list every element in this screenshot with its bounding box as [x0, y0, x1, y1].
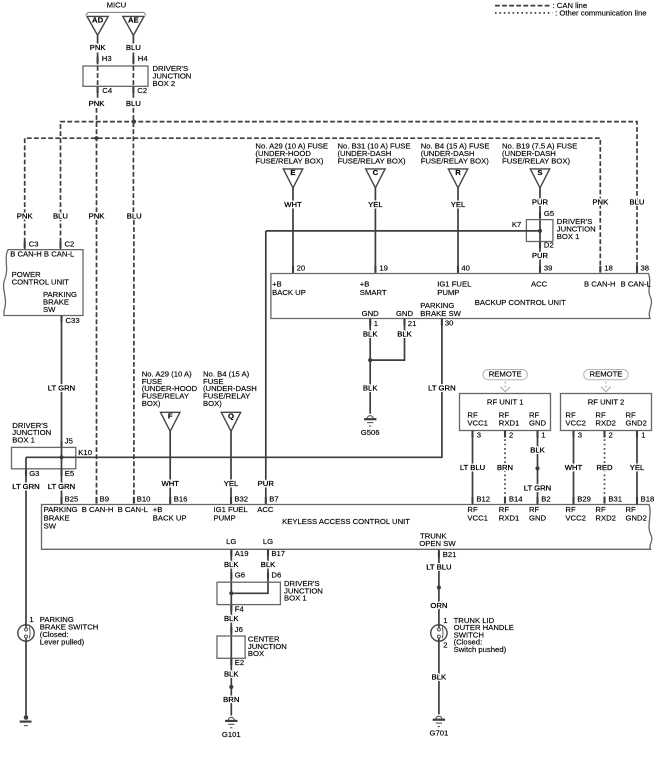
svg-text:30: 30 — [445, 319, 454, 328]
svg-text:REMOTE: REMOTE — [590, 369, 623, 378]
svg-text:B14: B14 — [509, 495, 523, 504]
svg-text:SW: SW — [44, 522, 57, 531]
svg-text:LT GRN: LT GRN — [48, 383, 75, 392]
svg-text:F: F — [168, 412, 173, 421]
svg-text:BLK: BLK — [224, 560, 239, 569]
svg-text:1: 1 — [374, 319, 378, 328]
svg-text:MICU: MICU — [107, 0, 127, 9]
svg-text:B7: B7 — [269, 495, 278, 504]
svg-text:LT GRN: LT GRN — [428, 383, 455, 392]
svg-text:PUR: PUR — [532, 251, 549, 260]
svg-text:RXD2: RXD2 — [595, 419, 616, 428]
svg-text:BOX): BOX) — [203, 399, 222, 408]
svg-text:G5: G5 — [544, 209, 554, 218]
svg-text:Lever pulled): Lever pulled) — [40, 637, 85, 646]
svg-text:BLK: BLK — [397, 330, 412, 339]
svg-text:PNK: PNK — [90, 43, 107, 52]
svg-text:19: 19 — [379, 264, 388, 273]
svg-text:WHT: WHT — [284, 200, 302, 209]
svg-text:VCC1: VCC1 — [467, 419, 488, 428]
svg-text:G701: G701 — [429, 729, 448, 738]
svg-text:21: 21 — [408, 319, 417, 328]
svg-text:3: 3 — [578, 431, 582, 440]
svg-text:YEL: YEL — [451, 200, 466, 209]
svg-text:BLK: BLK — [224, 614, 239, 623]
svg-text:B16: B16 — [174, 495, 188, 504]
svg-text:2: 2 — [609, 431, 613, 440]
svg-text:BLK: BLK — [224, 670, 239, 679]
svg-text:WHT: WHT — [161, 479, 179, 488]
svg-text:39: 39 — [544, 264, 553, 273]
svg-text:G101: G101 — [222, 730, 241, 739]
svg-text:BLK: BLK — [363, 330, 378, 339]
svg-text:B CAN-L: B CAN-L — [118, 505, 149, 514]
svg-text:BLK: BLK — [530, 446, 545, 455]
svg-text:FUSE/RELAY BOX): FUSE/RELAY BOX) — [338, 156, 407, 165]
svg-text:B CAN-H: B CAN-H — [584, 280, 616, 289]
svg-text:E5: E5 — [65, 469, 74, 478]
svg-text:ACC: ACC — [531, 280, 548, 289]
svg-text:B25: B25 — [65, 495, 79, 504]
svg-text:E2: E2 — [235, 658, 244, 667]
svg-text:18: 18 — [604, 264, 613, 273]
svg-text:B32: B32 — [234, 495, 248, 504]
svg-text:BACKUP CONTROL UNIT: BACKUP CONTROL UNIT — [475, 298, 566, 307]
svg-text:LT BLU: LT BLU — [460, 463, 485, 472]
svg-text:RF UNIT 2: RF UNIT 2 — [588, 397, 625, 406]
svg-text:LG: LG — [226, 537, 236, 546]
svg-text:G506: G506 — [361, 428, 380, 437]
svg-text:S: S — [537, 168, 542, 177]
svg-text:RXD1: RXD1 — [499, 419, 520, 428]
svg-text:AE: AE — [128, 16, 139, 25]
svg-text:3: 3 — [477, 431, 481, 440]
svg-text:B29: B29 — [577, 495, 591, 504]
svg-text:B10: B10 — [137, 495, 151, 504]
svg-text:GND: GND — [362, 309, 380, 318]
svg-text:BOX 1: BOX 1 — [284, 594, 307, 603]
svg-text:BLK: BLK — [363, 383, 378, 392]
svg-text:OPEN SW: OPEN SW — [419, 539, 456, 548]
svg-text:FUSE/RELAY BOX): FUSE/RELAY BOX) — [255, 156, 324, 165]
svg-text:AD: AD — [92, 16, 104, 25]
svg-text:GND: GND — [396, 309, 414, 318]
svg-text:B CAN-H: B CAN-H — [82, 505, 114, 514]
svg-text:B12: B12 — [476, 495, 490, 504]
svg-text:B21: B21 — [443, 550, 457, 559]
svg-text:BLU: BLU — [126, 43, 141, 52]
svg-text:D2: D2 — [544, 241, 554, 250]
svg-text:LT GRN: LT GRN — [524, 484, 551, 493]
svg-text:BLU: BLU — [127, 211, 142, 220]
svg-text:BOX 1: BOX 1 — [557, 232, 580, 241]
svg-text:RED: RED — [596, 463, 613, 472]
svg-text:C33: C33 — [66, 316, 80, 325]
svg-text:H3: H3 — [102, 54, 112, 63]
svg-text:BRAKE SW: BRAKE SW — [420, 309, 461, 318]
svg-text:BLK: BLK — [432, 673, 447, 682]
svg-text:1: 1 — [29, 615, 33, 624]
svg-text:BOX): BOX) — [142, 399, 161, 408]
svg-text:1: 1 — [641, 431, 645, 440]
svg-text:E: E — [290, 168, 295, 177]
svg-text:C: C — [373, 168, 379, 177]
svg-text:B18: B18 — [641, 495, 655, 504]
svg-text:ACC: ACC — [257, 505, 274, 514]
svg-text:LT BLU: LT BLU — [426, 563, 451, 572]
svg-text:38: 38 — [641, 264, 650, 273]
svg-text:J5: J5 — [65, 436, 73, 445]
svg-text:: Other communication line: : Other communication line — [555, 8, 646, 17]
svg-text:PUMP: PUMP — [214, 513, 236, 522]
svg-text:2: 2 — [509, 431, 513, 440]
svg-text:B31: B31 — [608, 495, 622, 504]
svg-text:BOX 2: BOX 2 — [153, 79, 176, 88]
svg-text:LT GRN: LT GRN — [12, 482, 39, 491]
svg-text:FUSE/RELAY BOX): FUSE/RELAY BOX) — [421, 156, 490, 165]
svg-text:GND: GND — [529, 419, 547, 428]
svg-text:GND: GND — [529, 513, 547, 522]
svg-text:BACK UP: BACK UP — [153, 513, 187, 522]
svg-text:VCC2: VCC2 — [565, 419, 586, 428]
svg-text:BLU: BLU — [630, 198, 645, 207]
svg-text:WHT: WHT — [565, 463, 583, 472]
svg-text:REMOTE: REMOTE — [489, 369, 522, 378]
svg-text:BACK UP: BACK UP — [272, 288, 306, 297]
svg-text:ORN: ORN — [430, 601, 447, 610]
svg-text:RF UNIT 1: RF UNIT 1 — [487, 397, 524, 406]
svg-text:20: 20 — [297, 264, 306, 273]
svg-text:GND2: GND2 — [626, 513, 647, 522]
svg-text:G3: G3 — [29, 469, 39, 478]
svg-text:FUSE/RELAY BOX): FUSE/RELAY BOX) — [502, 156, 571, 165]
svg-text:40: 40 — [461, 264, 470, 273]
svg-text:BLU: BLU — [53, 211, 68, 220]
svg-text:2: 2 — [443, 641, 447, 650]
svg-text:H4: H4 — [138, 54, 149, 63]
svg-text:1: 1 — [443, 616, 447, 625]
svg-text:KEYLESS ACCESS CONTROL UNIT: KEYLESS ACCESS CONTROL UNIT — [282, 517, 410, 526]
svg-text:PUMP: PUMP — [437, 288, 459, 297]
svg-text:YEL: YEL — [224, 479, 239, 488]
svg-text:PNK: PNK — [592, 198, 609, 207]
svg-text:LG: LG — [263, 537, 273, 546]
svg-text:SMART: SMART — [360, 288, 387, 297]
svg-text:VCC1: VCC1 — [467, 513, 488, 522]
svg-text:VCC2: VCC2 — [565, 513, 586, 522]
svg-text:RXD2: RXD2 — [595, 513, 616, 522]
svg-text:1: 1 — [541, 431, 545, 440]
svg-text:K7: K7 — [512, 220, 521, 229]
svg-text:SW: SW — [43, 305, 56, 314]
svg-text:RXD1: RXD1 — [499, 513, 520, 522]
svg-text:B CAN-H B CAN-L: B CAN-H B CAN-L — [10, 249, 75, 258]
svg-text:PNK: PNK — [17, 211, 34, 220]
svg-text:BLK: BLK — [261, 560, 276, 569]
svg-text:Switch pushed): Switch pushed) — [454, 645, 507, 654]
svg-text:GND2: GND2 — [626, 419, 647, 428]
svg-text:F4: F4 — [235, 605, 245, 614]
svg-text:BRN: BRN — [497, 463, 513, 472]
svg-text:C2: C2 — [65, 239, 75, 248]
svg-text:PUR: PUR — [258, 479, 275, 488]
svg-text:BRN: BRN — [223, 695, 239, 704]
svg-text:J6: J6 — [235, 625, 243, 634]
svg-text:C3: C3 — [29, 239, 39, 248]
svg-text:YEL: YEL — [368, 200, 383, 209]
svg-text:PNK: PNK — [89, 211, 106, 220]
svg-text:Q: Q — [228, 412, 234, 421]
svg-text:B2: B2 — [541, 495, 550, 504]
svg-text:A19: A19 — [235, 549, 249, 558]
svg-text:BOX: BOX — [248, 649, 264, 658]
svg-text:BLU: BLU — [126, 99, 141, 108]
svg-text:B17: B17 — [271, 549, 285, 558]
svg-text:PNK: PNK — [89, 99, 106, 108]
svg-text:D6: D6 — [271, 571, 281, 580]
svg-text:G6: G6 — [235, 571, 245, 580]
svg-text:B9: B9 — [100, 495, 109, 504]
svg-text:PUR: PUR — [532, 198, 549, 207]
svg-text:B CAN-L: B CAN-L — [621, 280, 652, 289]
svg-text:BOX 1: BOX 1 — [12, 436, 35, 445]
svg-text:K10: K10 — [78, 448, 92, 457]
svg-text:CONTROL UNIT: CONTROL UNIT — [12, 277, 70, 286]
svg-text:R: R — [455, 168, 461, 177]
svg-text:YEL: YEL — [630, 463, 645, 472]
svg-text:C2: C2 — [137, 86, 147, 95]
svg-text:LT GRN: LT GRN — [48, 482, 75, 491]
svg-text:C4: C4 — [102, 86, 113, 95]
